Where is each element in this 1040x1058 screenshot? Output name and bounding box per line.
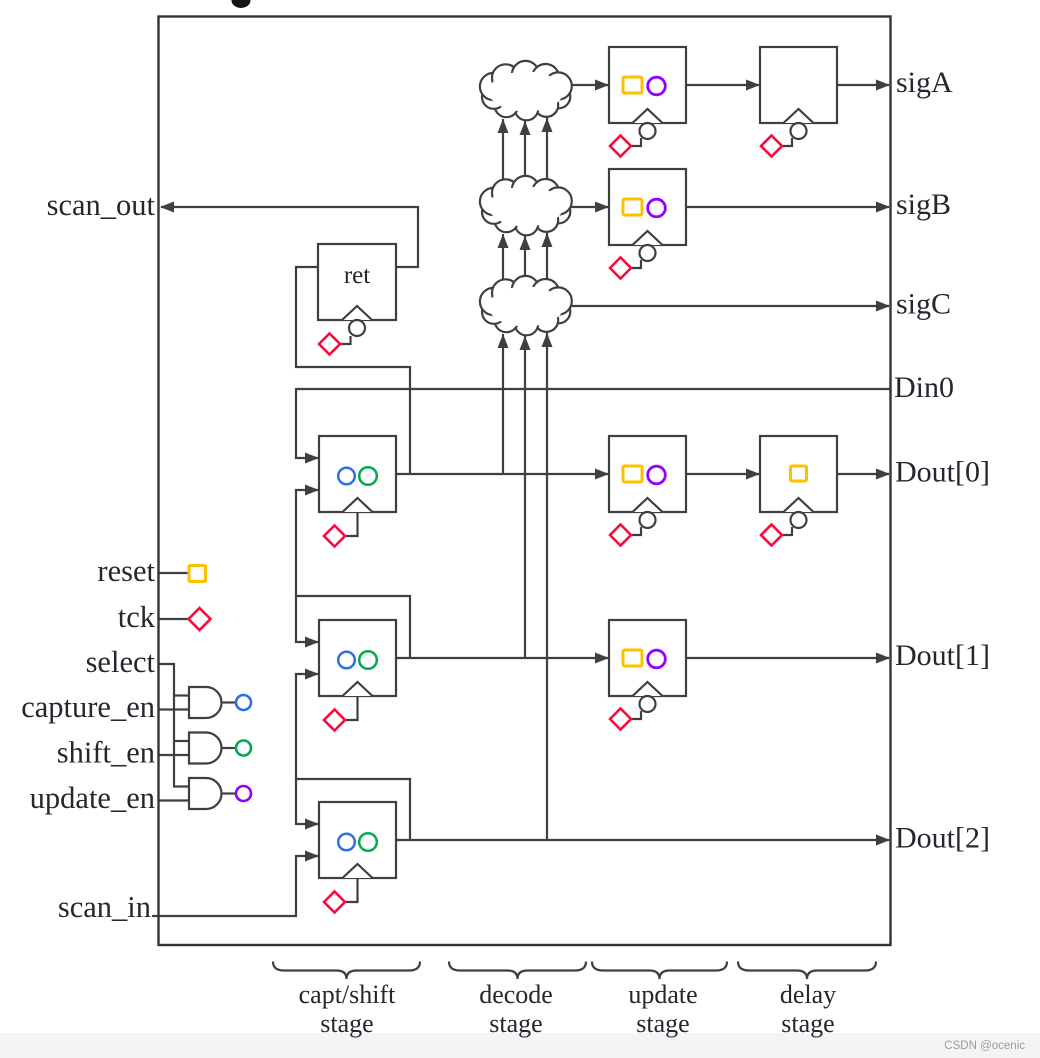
svg-text:stage: stage — [636, 1009, 689, 1038]
wire scan_out net (ret Q to left border) — [161, 207, 418, 267]
AND gate A1 capture — [189, 687, 222, 718]
update U5 sigB clock connector — [632, 260, 641, 268]
cropped title fragment — [232, 0, 251, 8]
gate A3 update output terminal circle — [236, 786, 251, 801]
svg-text:stage: stage — [489, 1009, 542, 1038]
update U0 sigA clock bubble — [640, 123, 656, 139]
delay U1 sigA clock connector — [783, 138, 792, 146]
wire update U4 Q to border Dout[1] — [686, 657, 889, 659]
delay U1 sigA tck diamond — [761, 136, 782, 157]
wire tck stub — [159, 618, 188, 620]
delay U1 sigA clock triangle — [784, 109, 814, 123]
gate A2 shift output terminal circle — [236, 741, 251, 756]
delay U3 Dout0 clock bubble — [791, 512, 807, 528]
FF1 clock triangle — [343, 682, 373, 696]
capt/shift flip-flop FF1 box — [319, 620, 396, 696]
arrow feed b into K3 — [520, 336, 531, 350]
arrow sigA at border — [876, 80, 890, 91]
brace update stage — [592, 962, 727, 980]
FF1 capture circle (blue) — [338, 652, 355, 669]
arrow feed a into K2 — [498, 234, 509, 248]
wire FF1 Q to update FF U4 (Dout[1] row) — [396, 657, 608, 659]
reset terminal square (yellow) — [189, 566, 206, 582]
gate A3 update output stub — [222, 792, 237, 794]
FF0 shift circle (green) — [359, 467, 377, 485]
arrow into delay U1 — [746, 80, 760, 91]
arrow feed a into K1 — [498, 119, 509, 133]
arrow into update U2 — [595, 469, 609, 480]
wire FF2 Q to border Dout[2] — [396, 839, 889, 841]
svg-text:reset: reset — [97, 554, 155, 588]
svg-text:Dout[1]: Dout[1] — [895, 639, 990, 672]
update U5 sigB clock triangle — [633, 231, 663, 245]
update U5 sigB reset square (yellow) — [623, 199, 642, 215]
svg-text:sigC: sigC — [896, 288, 951, 321]
gate A1 capture output terminal circle — [236, 695, 251, 710]
FF0 clock triangle — [343, 498, 373, 512]
update flip-flop U5 sigB box — [609, 169, 686, 245]
ret tck diamond — [319, 334, 340, 355]
wire cloud K2 out to update FF U5 (sigB row) — [566, 206, 608, 208]
wire select stub to gate A2 — [174, 740, 189, 742]
delay flip-flop U3 Dout0 box — [760, 436, 837, 512]
AND gate A3 update — [189, 778, 222, 809]
wire update U0 Q to delay FF U1 — [686, 84, 759, 86]
wire FF2 data loop input — [296, 779, 318, 824]
arrow sigB at border — [876, 202, 890, 213]
FF2 clock triangle — [343, 864, 373, 878]
wire decode feed net c (FF2 Q up to clouds) — [546, 333, 548, 840]
wire scan tap FF1 Q to FF0 scan input — [296, 490, 410, 658]
delay U3 Dout0 clock triangle — [784, 498, 814, 512]
update U2 Dout0 update circle (purple) — [648, 466, 666, 484]
arrow Dout1 at border — [876, 653, 890, 664]
arrow into FF2 scan — [305, 851, 319, 862]
svg-text:stage: stage — [320, 1009, 373, 1038]
update U4 Dout1 reset square (yellow) — [623, 650, 642, 666]
update U0 sigA clock triangle — [633, 109, 663, 123]
FF2 clock stub — [346, 878, 358, 902]
svg-text:decode: decode — [479, 980, 553, 1009]
flip-flop RET box — [318, 244, 396, 320]
update flip-flop U2 Dout0 box — [609, 436, 686, 512]
wire shift_en to gate A2 — [159, 754, 189, 756]
wire update_en to gate A3 — [159, 799, 189, 801]
wire update U2 Q to delay FF U3 — [686, 473, 759, 475]
arrow sigC at border — [876, 301, 890, 312]
delay flip-flop U1 sigA box — [760, 47, 837, 123]
wire delay U3 Q to border Dout[0] — [837, 473, 889, 475]
update U0 sigA clock connector — [632, 138, 641, 146]
wire scan tap FF2 Q to FF1 scan input — [296, 674, 410, 840]
update U4 Dout1 clock bubble — [640, 696, 656, 712]
gate A2 shift output stub — [222, 747, 237, 749]
arrow feed a into K3 — [498, 334, 509, 348]
tck terminal diamond (red) — [189, 608, 211, 630]
arrow into FF1 scan — [305, 669, 319, 680]
wire FF1 data loop input — [296, 596, 318, 642]
FF0 clock stub — [346, 512, 358, 536]
svg-text:delay: delay — [780, 980, 836, 1009]
FF2 shift circle (green) — [359, 833, 377, 851]
AND gate A2 shift — [189, 733, 222, 764]
wire decode feed net b (FF1 Q up to clouds) — [524, 336, 526, 658]
arrow Dout2 at border — [876, 835, 890, 846]
update U4 Dout1 tck diamond — [610, 709, 631, 730]
arrow into delay U3 — [746, 469, 760, 480]
svg-text:capt/shift: capt/shift — [299, 980, 397, 1009]
arrow Dout0 at border — [876, 469, 890, 480]
chip boundary — [159, 17, 891, 946]
arrow feed c into K1 — [542, 118, 553, 132]
svg-text:update_en: update_en — [30, 781, 155, 815]
update U5 sigB update circle (purple) — [648, 199, 666, 217]
update U0 sigA tck diamond — [610, 136, 631, 157]
update flip-flop U0 sigA box — [609, 47, 686, 123]
svg-text:scan_out: scan_out — [47, 188, 156, 222]
update U2 Dout0 clock connector — [632, 527, 641, 535]
wire decode feed net a (FF0 Q up to clouds) — [502, 334, 504, 474]
wire delay U1 Q to border sigA — [837, 84, 889, 86]
svg-text:stage: stage — [781, 1009, 834, 1038]
update U5 sigB clock bubble — [640, 245, 656, 261]
arrow into update U4 — [595, 653, 609, 664]
update U4 Dout1 clock triangle — [633, 682, 663, 696]
update U0 sigA reset square (yellow) — [623, 77, 642, 93]
gate A1 capture output stub — [222, 701, 237, 703]
arrow into FF2 data — [305, 819, 319, 830]
wire select net to AND gates — [159, 664, 189, 787]
bottom watermark band — [0, 1033, 1040, 1058]
svg-text:ret: ret — [344, 262, 370, 289]
wire cloud K3 out to border sigC — [566, 305, 889, 307]
ret clock connector — [341, 336, 351, 344]
svg-text:capture_en: capture_en — [21, 690, 155, 724]
FF1 tck diamond — [324, 710, 345, 731]
update U2 Dout0 reset square (yellow) — [623, 466, 642, 482]
wire reset stub — [159, 572, 188, 574]
FF2 capture circle (blue) — [338, 834, 355, 851]
svg-text:tck: tck — [118, 600, 156, 634]
arrow into update U5 — [595, 202, 609, 213]
arrow into update U0 — [595, 80, 609, 91]
arrow feed b into K2 — [520, 236, 531, 250]
svg-text:select: select — [86, 645, 156, 679]
arrow into FF1 data — [305, 637, 319, 648]
brace capt/shift stage — [273, 962, 420, 980]
wire update U5 Q to border sigB — [686, 206, 889, 208]
combinational cloud K3 (sigC decode) — [480, 276, 572, 335]
update U4 Dout1 clock connector — [632, 711, 641, 719]
svg-text:scan_in: scan_in — [58, 890, 151, 924]
svg-text:sigA: sigA — [896, 66, 953, 99]
update U0 sigA update circle (purple) — [648, 77, 666, 95]
ret clock triangle — [342, 306, 372, 320]
delay U3 Dout0 clock connector — [783, 527, 792, 535]
delay U1 sigA clock bubble — [791, 123, 807, 139]
arrow into FF0 data — [305, 453, 319, 464]
FF2 tck diamond — [324, 892, 345, 913]
combinational cloud K2 (sigB decode) — [480, 176, 572, 235]
update U2 Dout0 clock triangle — [633, 498, 663, 512]
arrow feed c into K3 — [542, 333, 553, 347]
FF0 capture circle (blue) — [338, 468, 355, 485]
arrow scan_out at border — [160, 202, 174, 213]
capt/shift flip-flop FF0 box — [319, 436, 396, 512]
ret clock bubble — [349, 320, 365, 336]
wire ret D input (from FF0 Q tap) — [296, 267, 410, 474]
FF1 shift circle (green) — [359, 651, 377, 669]
svg-text:sigB: sigB — [896, 188, 951, 221]
update U2 Dout0 tck diamond — [610, 525, 631, 546]
FF1 clock stub — [346, 696, 358, 720]
arrow feed b into K1 — [520, 121, 531, 135]
update flip-flop U4 Dout1 box — [609, 620, 686, 696]
update U5 sigB tck diamond — [610, 258, 631, 279]
wire FF0 Q to update FF U2 (Dout[0] row) — [396, 473, 608, 475]
delay U3 Dout0 tck diamond — [761, 525, 782, 546]
brace delay stage — [738, 962, 876, 980]
brace decode stage — [449, 962, 586, 980]
wire select stub to gate A1 — [174, 694, 189, 696]
wire scan_in net — [152, 856, 318, 916]
wire capture_en to gate A1 — [159, 708, 189, 710]
delay U3 Dout0 reset square (yellow) — [791, 466, 807, 481]
update U4 Dout1 update circle (purple) — [648, 650, 666, 668]
FF0 tck diamond — [324, 526, 345, 547]
combinational cloud K1 (sigA decode) — [480, 61, 572, 120]
update U2 Dout0 clock bubble — [640, 512, 656, 528]
svg-text:Dout[0]: Dout[0] — [895, 456, 990, 489]
svg-text:shift_en: shift_en — [57, 736, 155, 770]
svg-text:update: update — [628, 980, 697, 1009]
svg-text:CSDN @ocenic: CSDN @ocenic — [944, 1040, 1025, 1052]
wire Din0 net (right border to FF0 data input) — [296, 389, 890, 458]
svg-text:Dout[2]: Dout[2] — [895, 822, 990, 855]
arrow feed c into K2 — [542, 233, 553, 247]
capt/shift flip-flop FF2 box — [319, 802, 396, 878]
wire cloud K1 out to update FF U0 (sigA row) — [566, 84, 608, 86]
svg-text:Din0: Din0 — [894, 371, 954, 404]
arrow into FF0 scan — [305, 485, 319, 496]
